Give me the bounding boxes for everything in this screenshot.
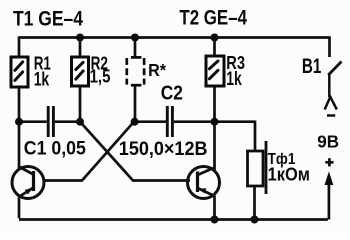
svg-text:9В: 9В	[317, 132, 339, 152]
svg-text:C1 0,05: C1 0,05	[24, 139, 86, 160]
svg-text:C2: C2	[161, 81, 183, 104]
svg-text:150,0×12В: 150,0×12В	[119, 138, 208, 160]
svg-text:1k: 1k	[226, 68, 242, 90]
svg-text:T2 GE–4: T2 GE–4	[179, 6, 247, 30]
svg-text:1кОм: 1кОм	[268, 164, 310, 185]
svg-text:B1: B1	[302, 54, 322, 78]
svg-text:1,5: 1,5	[90, 67, 111, 87]
svg-text:1k: 1k	[34, 68, 50, 90]
svg-text:R*: R*	[148, 60, 166, 80]
svg-text:T1 GE–4: T1 GE–4	[13, 7, 83, 31]
